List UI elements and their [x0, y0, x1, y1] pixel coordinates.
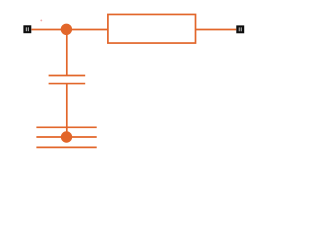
wire: junction to resistor left pin [66, 29, 108, 31]
junction node at R1/C1 [61, 24, 72, 35]
port terminal P1 (left) [23, 25, 31, 33]
resistor R1 [108, 14, 196, 43]
ground [36, 127, 96, 147]
capacitor C1 [49, 76, 86, 84]
wire: junction down to capacitor top plate [66, 30, 68, 76]
stray red mark [40, 19, 42, 21]
wire: left terminal to junction [32, 29, 67, 31]
wire: resistor right pin to right terminal [196, 29, 237, 31]
port terminal P2 (right) [236, 25, 244, 33]
junction node at ground [61, 131, 72, 142]
wire: capacitor bottom plate down to ground [66, 84, 68, 137]
